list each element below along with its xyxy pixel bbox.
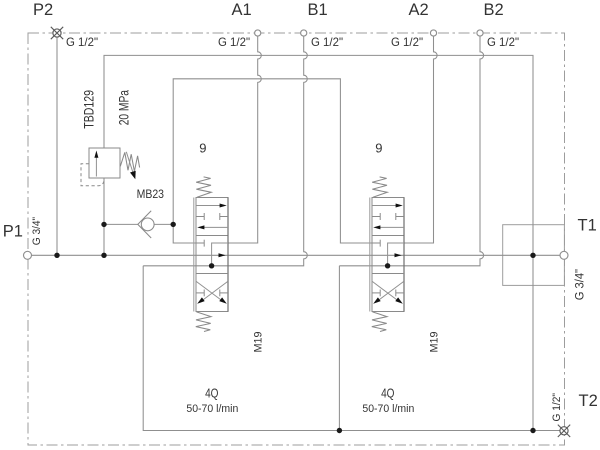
wire: tank rail to T2 — [143, 266, 560, 431]
wire: B1 drop through valve V1 to tank rail — [143, 36, 307, 266]
wire: feed gallery y=79 linking valve inlets — [173, 79, 372, 243]
svg-text:50-70 l/min: 50-70 l/min — [362, 403, 414, 415]
svg-text:G 1/2": G 1/2" — [391, 35, 423, 49]
svg-text:MB23: MB23 — [137, 187, 165, 201]
junction check valve outlet / feed gallery — [171, 222, 176, 227]
port P2 (plugged) — [53, 29, 61, 37]
wire: relief valve drain to P bus — [103, 178, 105, 255]
svg-text:G 1/2": G 1/2" — [218, 35, 250, 49]
svg-text:T1: T1 — [578, 217, 597, 235]
T1 port sub-block outline — [503, 225, 565, 286]
svg-text:T2: T2 — [579, 392, 598, 410]
svg-text:4Q: 4Q — [205, 386, 218, 401]
svg-text:G 1/2": G 1/2" — [551, 393, 563, 422]
svg-text:P2: P2 — [33, 1, 53, 19]
svg-text:9: 9 — [375, 141, 382, 156]
svg-text:G 3/4": G 3/4" — [573, 269, 587, 300]
svg-text:B2: B2 — [484, 1, 504, 19]
wire: A2 drop to valve V2 — [404, 36, 437, 243]
svg-text:G 1/2": G 1/2" — [311, 35, 343, 49]
port B1 — [301, 30, 307, 36]
junction T1 drop / tank rail — [530, 428, 535, 433]
svg-text:TBD129: TBD129 — [81, 90, 96, 129]
svg-text:M19: M19 — [253, 332, 265, 353]
port T2 (plugged) — [560, 427, 568, 435]
check valve seat — [138, 211, 151, 238]
wire: check valve outlet to feed gallery — [154, 223, 173, 225]
svg-text:50-70 l/min: 50-70 l/min — [186, 403, 238, 415]
wire: relief header y=55 and T1 drop — [104, 55, 533, 430]
junction T1 drop / P bus — [530, 253, 535, 258]
port B2 — [477, 30, 483, 36]
port T1 — [560, 251, 568, 259]
relief valve pilot line (dashed) — [81, 164, 104, 186]
svg-text:G 3/4": G 3/4" — [31, 217, 43, 245]
svg-text:G 1/2": G 1/2" — [487, 35, 519, 49]
svg-text:A1: A1 — [232, 1, 252, 19]
wire: B2 drop through valve V2 to tank rail — [339, 36, 483, 266]
wire: P2 drop to P bus — [56, 36, 58, 255]
wire: A1 drop to valve V1 — [228, 36, 261, 243]
port A2 — [430, 30, 436, 36]
relief valve TBD129 body — [89, 148, 120, 178]
junction V2 tank drop / rail — [337, 428, 342, 433]
svg-text:9: 9 — [199, 141, 206, 156]
port P1 — [24, 251, 32, 259]
svg-text:4Q: 4Q — [381, 386, 394, 401]
junction relief drain / check line — [101, 222, 106, 227]
relief valve adjustable spring — [120, 152, 139, 171]
wire: P bus P1 to T1 through valve centres — [32, 254, 561, 256]
directional valve V2 (copy of V1) — [370, 177, 404, 332]
check valve MB23 ball — [141, 218, 154, 231]
port A1 — [255, 30, 261, 36]
directional valve V2 body — [372, 198, 404, 312]
svg-text:20 MPa: 20 MPa — [117, 90, 132, 126]
wire: check valve inlet — [104, 223, 138, 225]
svg-text:A2: A2 — [409, 1, 429, 19]
svg-text:M19: M19 — [429, 332, 441, 353]
svg-text:B1: B1 — [308, 1, 328, 19]
svg-text:P1: P1 — [3, 223, 23, 241]
directional valve V1 body — [196, 198, 228, 312]
relief valve internal flow arrow — [95, 156, 97, 177]
svg-text:G 1/2": G 1/2" — [66, 35, 98, 49]
relief valve spring adjust arrow — [126, 152, 133, 172]
op: directional valve symbol definition — [194, 177, 228, 332]
junction P2/P bus — [54, 253, 59, 258]
junction relief drain / P bus — [101, 253, 106, 258]
wire: V2 tank drop — [338, 266, 340, 431]
